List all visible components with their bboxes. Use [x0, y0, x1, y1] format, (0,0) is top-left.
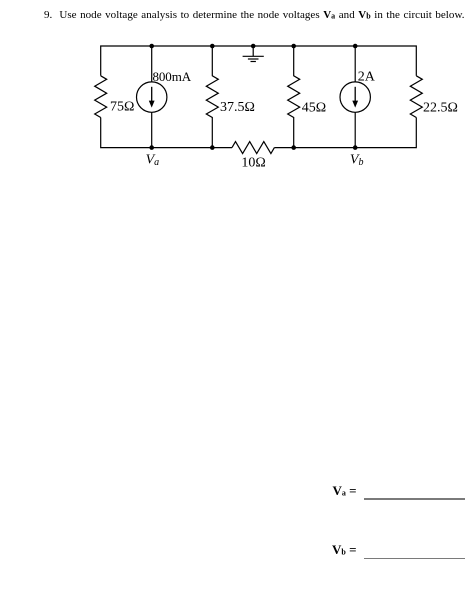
svg-text:37.5Ω: 37.5Ω	[220, 100, 255, 115]
svg-text:Va: Va	[146, 152, 160, 168]
wire top rail	[101, 46, 417, 76]
svg-text:45Ω: 45Ω	[302, 101, 326, 116]
svg-text:10Ω: 10Ω	[241, 156, 265, 171]
problem statement	[44, 9, 465, 21]
junction dot ground node	[251, 44, 256, 49]
junction dot top 800mA	[149, 44, 154, 49]
resistor 45ohm branch	[288, 46, 300, 148]
svg-text:2A: 2A	[358, 69, 376, 84]
answer blank Va	[364, 498, 465, 500]
svg-text:75Ω: 75Ω	[110, 100, 134, 115]
answer label Va	[333, 483, 357, 499]
junction dot top 2A	[353, 44, 358, 49]
junction dot top 37.5ohm	[210, 44, 215, 49]
junction dot node Va right	[210, 145, 215, 150]
resistor 75ohm	[95, 76, 107, 118]
resistor 22.5ohm	[410, 76, 422, 118]
answer blank Vb	[364, 558, 465, 560]
resistor 37.5ohm branch	[206, 46, 218, 148]
current source 2A	[340, 46, 370, 148]
junction dot top 45ohm	[291, 44, 296, 49]
wire bottom left segment	[101, 118, 232, 148]
junction dot node Vb right	[353, 145, 358, 150]
svg-text:800mA: 800mA	[153, 69, 192, 84]
answer label Vb	[332, 542, 357, 558]
junction dot node Vb left	[291, 145, 296, 150]
svg-text:Vb: Vb	[350, 152, 364, 168]
svg-text:22.5Ω: 22.5Ω	[423, 101, 458, 116]
resistor 10ohm	[232, 142, 274, 154]
ground	[243, 46, 264, 62]
junction dot node Va left	[149, 145, 154, 150]
current source 800mA	[137, 46, 167, 148]
wire bottom right segment	[274, 118, 416, 148]
